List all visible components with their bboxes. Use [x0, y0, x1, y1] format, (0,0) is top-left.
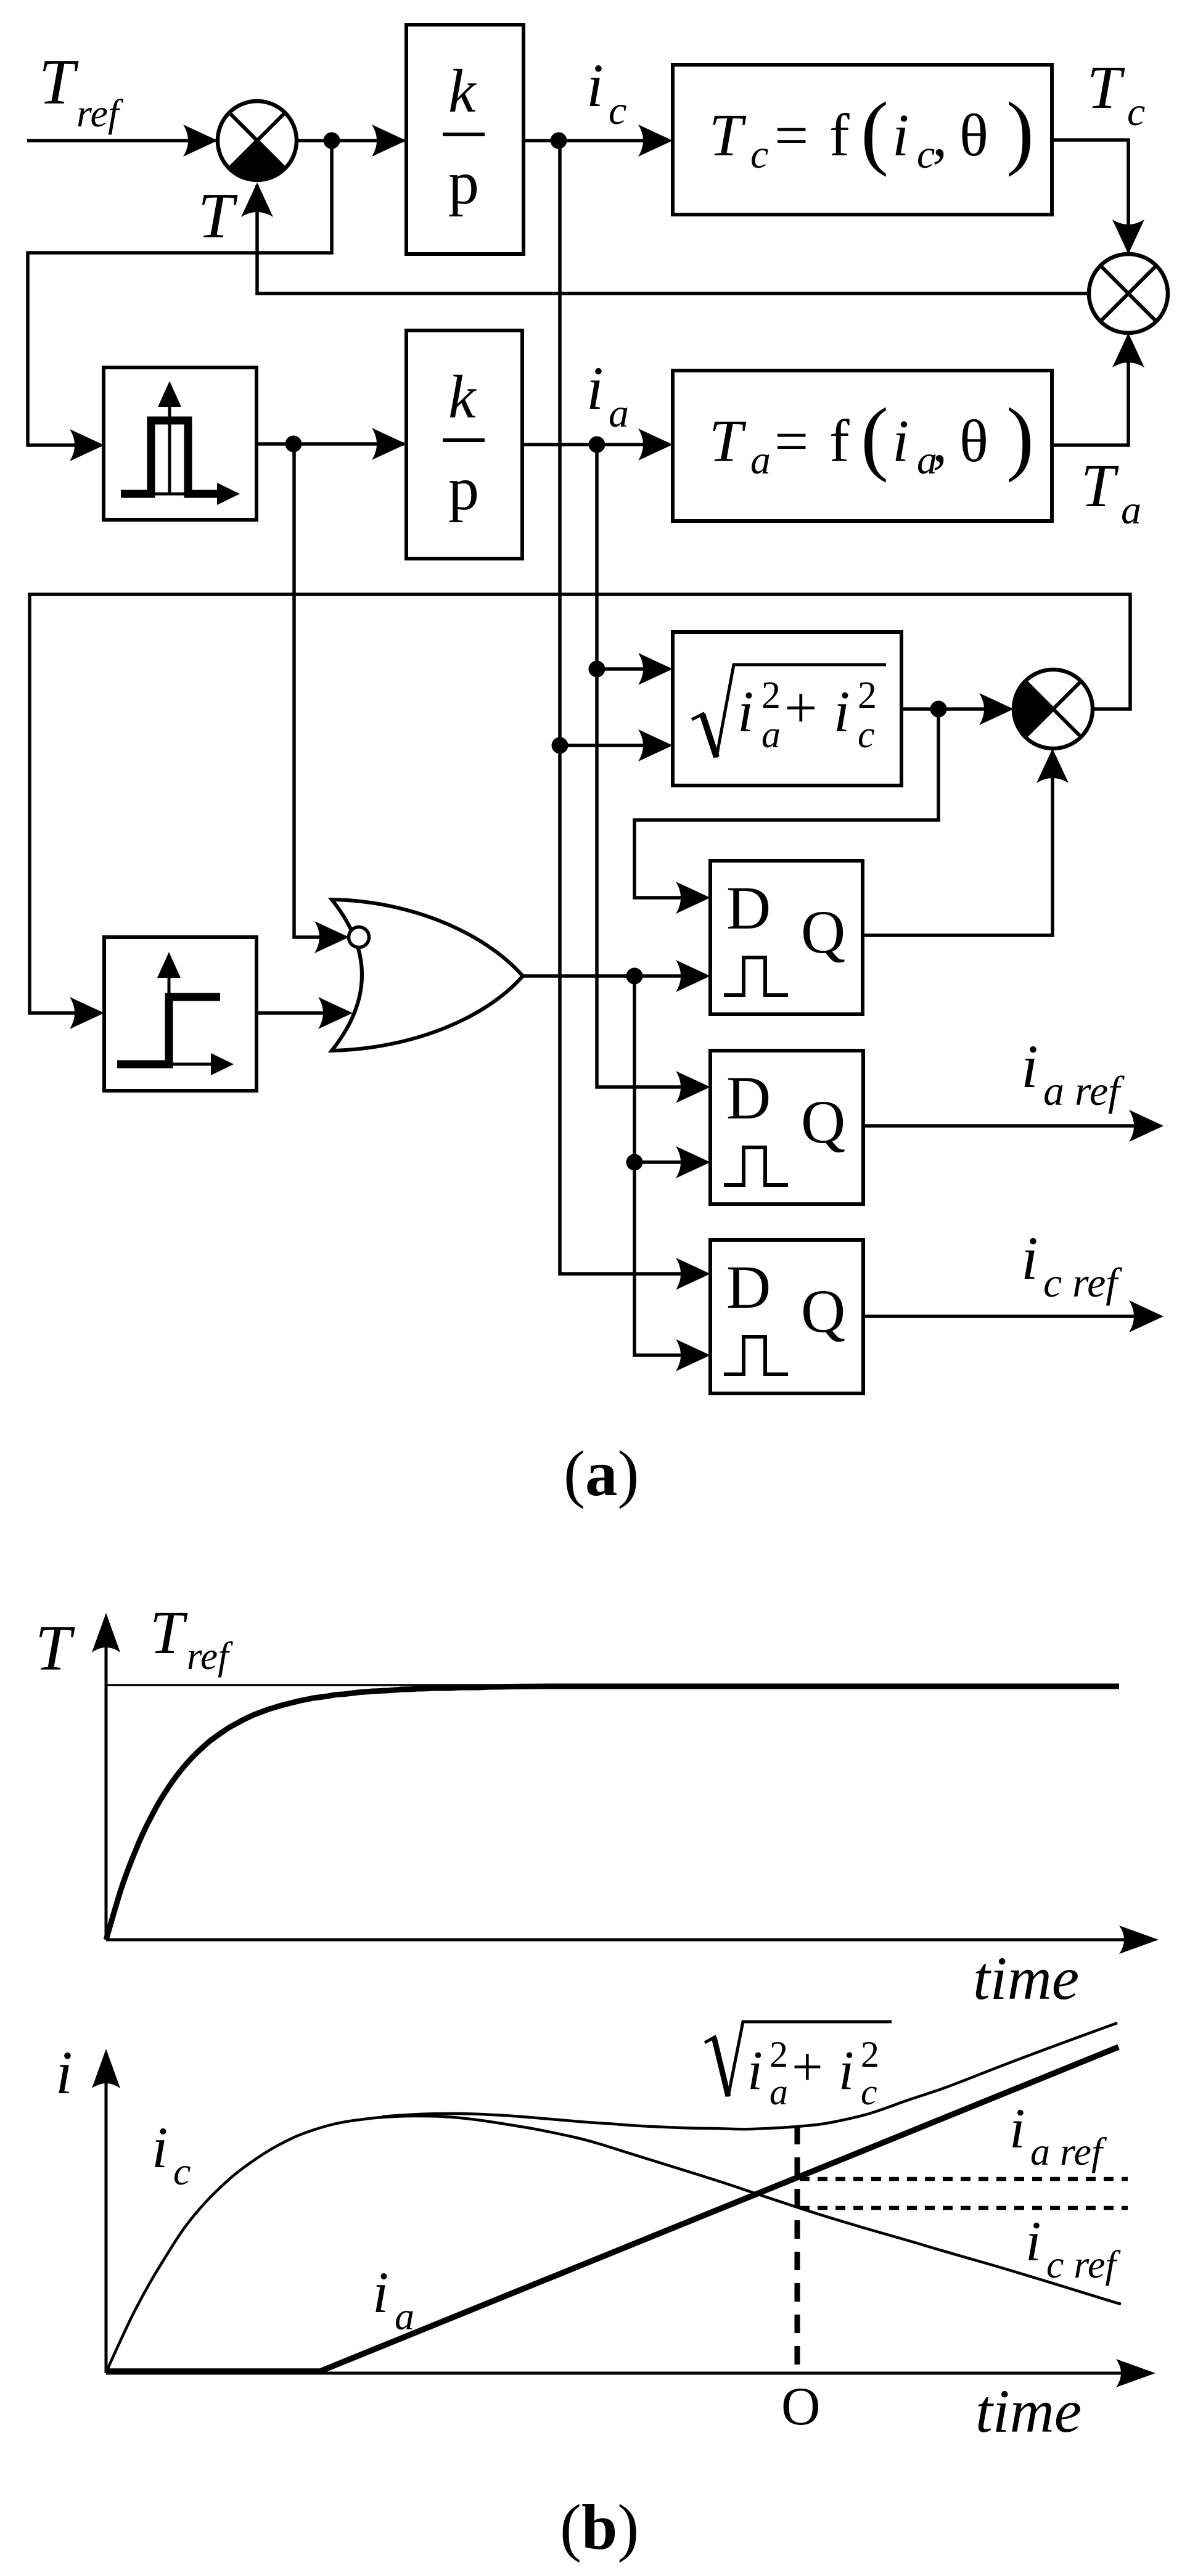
node i_a	[589, 437, 605, 453]
svg-text:+: +	[784, 675, 818, 740]
wire i_c from k/p1 to Tc block	[523, 139, 670, 142]
svg-text:T: T	[198, 179, 238, 252]
wire sqrt output to SJ4	[901, 707, 1010, 711]
svg-text:p: p	[448, 454, 479, 523]
wire Tc output to SJ2 top	[1052, 140, 1128, 252]
svg-text:i: i	[737, 679, 753, 744]
wire sqrt node to FF1 D input	[634, 709, 938, 898]
arrowhead into FF2 D	[676, 1071, 710, 1103]
arrowhead into pulse block	[70, 429, 104, 461]
block Tc = f(ic,theta)	[673, 65, 1052, 215]
svg-text:k: k	[448, 363, 477, 431]
svg-text:θ: θ	[959, 408, 988, 475]
svg-text:i: i	[839, 2040, 854, 2101]
svg-text:,: ,	[932, 102, 948, 169]
svg-text:T: T	[709, 102, 747, 169]
axis graph1 x	[106, 1938, 1138, 1942]
svg-text:2: 2	[861, 2034, 879, 2075]
summing junction SJ1 (Tref - T)	[218, 101, 297, 180]
arrowhead into FF3 clock	[676, 1339, 710, 1371]
svg-text:θ: θ	[959, 102, 988, 169]
arrowhead into SJ2 bottom	[1112, 333, 1144, 367]
wire T feedback from SJ2 to SJ1	[257, 185, 1089, 293]
svg-text:p: p	[448, 149, 479, 217]
icon pulse symbol	[123, 395, 237, 494]
arrowhead into NOR bottom input	[318, 997, 353, 1029]
arrowhead i_c_ref output	[1129, 1300, 1164, 1332]
svg-text:T: T	[709, 408, 747, 475]
label graph2 sqrt formula	[705, 2022, 892, 2096]
svg-text:c: c	[1127, 89, 1145, 134]
arrowhead graph1 y-axis	[92, 1613, 120, 1652]
bubble NOR inverted input	[349, 927, 369, 948]
svg-text:T: T	[35, 1612, 75, 1684]
arrowhead graph1 x-axis	[1119, 1926, 1159, 1954]
svg-text:=: =	[774, 102, 808, 169]
arrowhead into step block	[70, 997, 104, 1029]
svg-text:i: i	[892, 408, 909, 475]
svg-text:i: i	[1025, 2210, 1041, 2273]
wire i_a branch to sqrt upper input	[597, 667, 670, 671]
block sqrt(ia^2+ic^2)	[673, 632, 901, 786]
line graph1 Tref level	[106, 1684, 1119, 1686]
svg-text:2: 2	[770, 2034, 788, 2075]
wire FF1 Q output up to SJ4 bottom	[863, 752, 1053, 935]
svg-text:i: i	[55, 2038, 73, 2107]
svg-text:a: a	[1121, 488, 1141, 533]
svg-text:time: time	[975, 2377, 1081, 2445]
svg-text:i: i	[747, 2040, 763, 2101]
text sqrt block formula	[692, 665, 886, 757]
svg-text:(b): (b)	[560, 2491, 639, 2563]
svg-text:ref: ref	[76, 91, 124, 135]
arrowhead into sqrt upper input	[638, 653, 673, 685]
gate NOR (OR with inverted top input)	[332, 900, 523, 1051]
axis graph2 x	[106, 2372, 1135, 2375]
arrowhead into SJ2 top	[1112, 219, 1144, 254]
svg-text:Q: Q	[801, 898, 845, 966]
arrowhead into NOR top bubble	[314, 921, 349, 953]
svg-text:a: a	[770, 2072, 788, 2112]
svg-text:i: i	[152, 2115, 168, 2180]
wire FF3 Q output i_c_ref	[863, 1315, 1160, 1318]
icon step symbol	[118, 965, 231, 1064]
arrowhead into FF2 clock	[676, 1146, 710, 1178]
wire i_c vertical down to FF3 D	[560, 141, 707, 1274]
svg-text:f: f	[829, 408, 850, 475]
arrowhead into SJ4 bottom	[1036, 749, 1069, 783]
svg-text:a: a	[761, 714, 781, 756]
curve graph2 i_c	[106, 2116, 1121, 2373]
line graph2 dashed i_a_ref level	[800, 2177, 1128, 2181]
svg-text:Q: Q	[801, 1088, 845, 1156]
wire SJ1 output to k/p1	[297, 139, 404, 142]
svg-text:c: c	[750, 132, 768, 177]
wire Ta output to SJ2 bottom	[1052, 336, 1128, 445]
svg-text:): )	[1006, 392, 1034, 483]
svg-text:k: k	[448, 57, 477, 125]
svg-text:time: time	[973, 1944, 1079, 2012]
curve graph2 sqrt(ia^2+ic^2)	[382, 2023, 1117, 2129]
svg-text:a ref: a ref	[1030, 2130, 1107, 2173]
wire pulse-block output to k/p2	[257, 442, 404, 446]
svg-text:,: ,	[932, 408, 948, 475]
arrowhead into Tc block	[638, 125, 673, 157]
block pulse detector	[104, 367, 257, 520]
svg-text:Q: Q	[801, 1277, 845, 1345]
svg-text:a: a	[750, 438, 771, 483]
svg-text:2: 2	[761, 675, 781, 716]
svg-text:(a): (a)	[564, 1437, 639, 1509]
svg-text:a: a	[395, 2294, 414, 2338]
svg-text:+: +	[792, 2037, 823, 2098]
wire feedback node to pulse-block input	[28, 141, 332, 445]
svg-text:c ref: c ref	[1046, 2242, 1121, 2286]
svg-text:T: T	[1087, 53, 1125, 121]
arrowhead T into SJ1 bottom	[241, 183, 273, 217]
wire T_ref input	[27, 139, 216, 142]
wire pulse node down to NOR top input	[294, 444, 346, 937]
wire clock chain down to FF2 and FF3 clocks	[634, 976, 707, 1355]
svg-text:c: c	[609, 88, 626, 133]
summing junction SJ2 (Tc + Ta)	[1089, 254, 1168, 333]
svg-text:i: i	[1021, 1032, 1038, 1101]
arrowhead into k/p2	[372, 428, 406, 460]
arrowhead graph2 y-axis	[92, 2049, 120, 2088]
svg-text:c: c	[858, 714, 875, 756]
arrowhead i_a_ref output	[1129, 1110, 1164, 1142]
svg-text:i: i	[586, 51, 604, 120]
svg-text:O: O	[781, 2377, 821, 2437]
arrowhead into FF1 clock	[676, 960, 710, 992]
arrowhead into FF1 D	[676, 882, 710, 914]
svg-text:i: i	[892, 102, 909, 169]
wire FF2 Q output i_a_ref	[863, 1124, 1160, 1128]
node clock chain FF2	[626, 1154, 643, 1171]
node i_a to sqrt	[589, 661, 605, 678]
svg-text:D: D	[726, 874, 771, 942]
svg-text:2: 2	[858, 675, 877, 716]
arrowhead into Ta block	[638, 429, 673, 461]
axis graph1 y	[105, 1631, 108, 1940]
svg-text:c: c	[861, 2072, 877, 2112]
summing junction SJ4 (multiplier)	[1014, 670, 1093, 749]
node pulse output	[285, 436, 302, 453]
axis graph2 y	[105, 2067, 108, 2373]
arrowhead graph2 x-axis	[1116, 2359, 1155, 2387]
svg-text:T: T	[1081, 451, 1119, 520]
curve graph1 T response	[106, 1686, 1119, 1940]
wire i_a vertical down to FF2 D	[597, 445, 707, 1087]
node i_c to sqrt	[552, 737, 568, 754]
svg-text:ref: ref	[187, 1635, 233, 1678]
svg-text:i: i	[834, 679, 850, 744]
arrowhead into SJ4 left	[979, 693, 1014, 725]
arrowhead into FF3 D	[676, 1258, 710, 1290]
wire NOR output to FF1 clock	[523, 974, 707, 978]
svg-text:D: D	[726, 1064, 771, 1132]
wire SJ4 output up and across to step-block input	[30, 594, 1130, 1013]
flip-flop FF2 (D-Q)	[710, 1051, 863, 1204]
svg-text:(: (	[861, 86, 889, 178]
node SJ1 output	[324, 133, 340, 149]
svg-text:a: a	[609, 391, 629, 436]
svg-text:i: i	[586, 354, 604, 422]
svg-text:(: (	[861, 392, 889, 483]
svg-text:D: D	[726, 1253, 771, 1321]
svg-text:T: T	[150, 1598, 188, 1667]
svg-text:i: i	[1021, 1224, 1038, 1292]
arrowhead into sqrt lower input	[638, 729, 673, 761]
block k/p 1	[406, 25, 523, 254]
flip-flop FF1 (D-Q)	[710, 861, 863, 1014]
wire step-block output to NOR bottom input	[257, 1011, 349, 1015]
line graph2 dashed i_c_ref level	[800, 2206, 1128, 2210]
svg-text:c ref: c ref	[1043, 1259, 1122, 1306]
svg-text:a ref: a ref	[1043, 1067, 1125, 1114]
svg-text:f: f	[829, 102, 850, 169]
svg-text:=: =	[774, 408, 808, 475]
curve graph2 i_a	[108, 2047, 1118, 2371]
wire clock branch to FF2 clock	[634, 1160, 707, 1164]
arrowhead into k/p1	[372, 125, 406, 157]
svg-text:i: i	[1009, 2097, 1025, 2160]
svg-text:i: i	[372, 2260, 388, 2325]
arrowhead into SJ1	[183, 125, 218, 157]
block Ta = f(ia,theta)	[673, 371, 1052, 521]
wire i_a from k/p2 to Ta block	[522, 443, 670, 446]
svg-text:c: c	[173, 2149, 191, 2193]
line graph2 dashed vertical at O	[795, 2126, 800, 2373]
node sqrt output	[930, 701, 947, 718]
flip-flop FF3 (D-Q)	[710, 1240, 863, 1393]
wire i_c branch to sqrt lower input	[560, 744, 670, 747]
block k/p 2	[406, 330, 522, 559]
block step detector	[104, 937, 257, 1091]
node clock chain top	[626, 968, 643, 985]
svg-text:): )	[1006, 86, 1034, 178]
svg-text:T: T	[39, 46, 79, 118]
node i_c	[551, 133, 567, 149]
